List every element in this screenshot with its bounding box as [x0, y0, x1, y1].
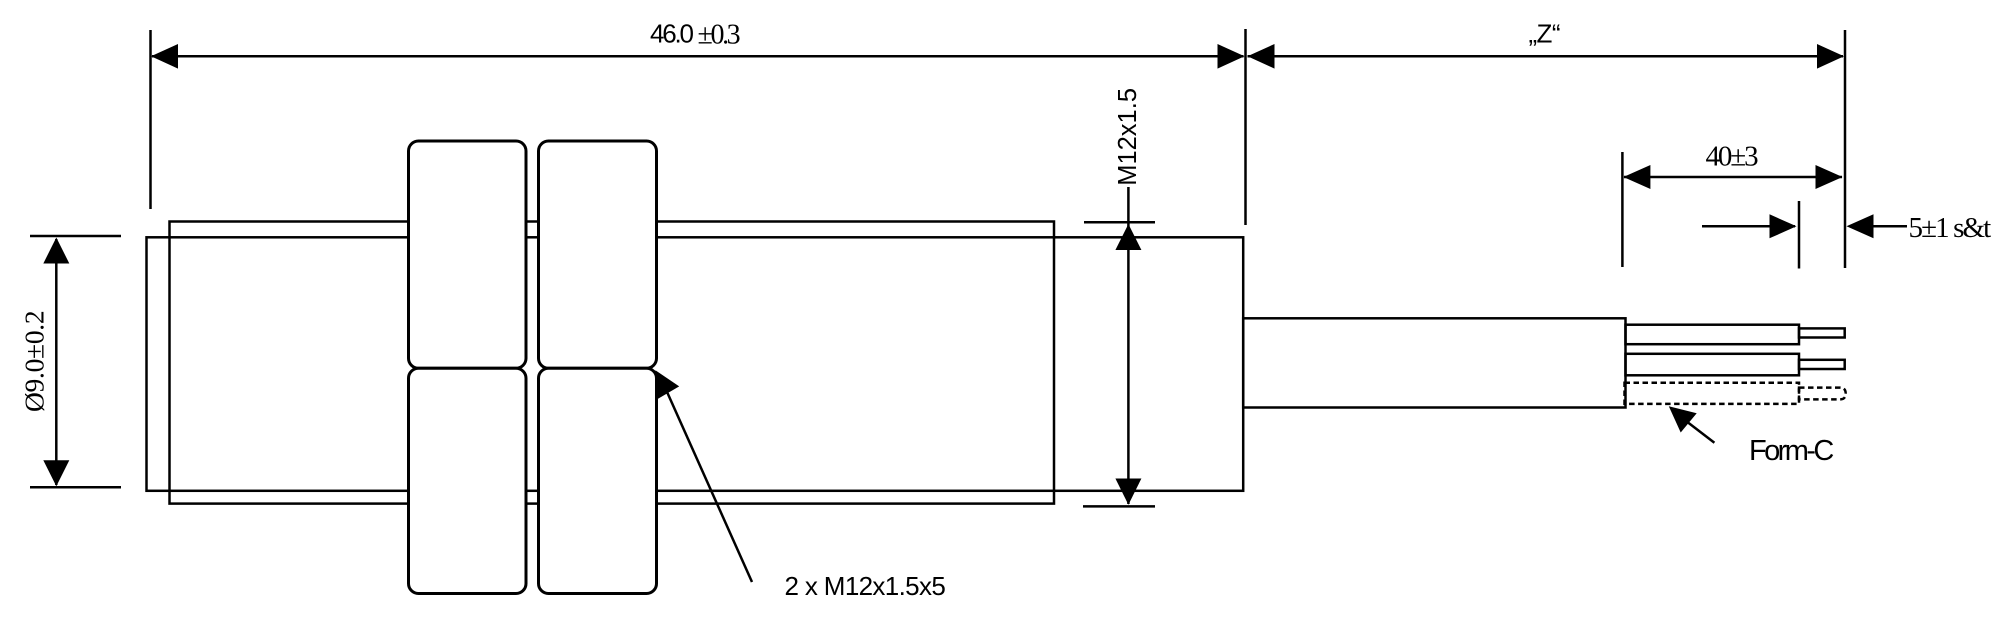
arrowhead Z left	[1248, 44, 1275, 69]
nut 2 upper half	[539, 141, 657, 368]
cable	[1243, 318, 1625, 407]
svg-text:±0.3: ±0.3	[698, 20, 740, 51]
leader line Form-C	[1688, 423, 1714, 443]
dim 46.0 line	[152, 55, 1244, 58]
nut 1 lower half	[409, 368, 527, 593]
wire 3 dashed insulation (Form-C)	[1625, 383, 1800, 404]
dim D9 top tick	[30, 235, 121, 238]
arrowhead M12 up	[1115, 224, 1141, 250]
dim D9 vertical line	[55, 239, 58, 485]
dim 5 annotation stem	[1874, 225, 1908, 228]
arrowhead 46.0 left	[151, 44, 178, 69]
dim 5 line	[1702, 225, 1795, 228]
wire 2 insulation	[1626, 354, 1800, 376]
arrowhead D9 up	[43, 238, 69, 264]
svg-text:„Z“: „Z“	[1529, 18, 1560, 48]
arrowhead 40 left	[1623, 165, 1650, 189]
dim D9 bottom tick	[30, 486, 121, 489]
arrowhead 5 annotation left	[1847, 214, 1874, 238]
arrowhead D9 down	[43, 460, 69, 486]
wire 3 dashed bare end	[1799, 388, 1846, 400]
arrowhead M12 down	[1115, 479, 1141, 505]
arrowhead 40 right	[1816, 165, 1843, 189]
svg-text:Ø9.0±0.2: Ø9.0±0.2	[19, 311, 50, 412]
arrowhead 5 right	[1770, 214, 1797, 238]
nut 2 lower half	[539, 368, 657, 593]
dim M12 bottom tick	[1083, 505, 1155, 508]
svg-text:46.0: 46.0	[650, 19, 694, 49]
body core cylinder	[147, 237, 1244, 490]
svg-text:40±3: 40±3	[1706, 141, 1759, 173]
dim Z right extension line	[1844, 30, 1847, 268]
dim 5 extension line	[1798, 201, 1801, 269]
svg-text:M12x1.5: M12x1.5	[1114, 88, 1142, 186]
dim Z line	[1248, 55, 1844, 58]
wire 1 bare conductor	[1799, 328, 1845, 337]
leader line nuts	[668, 393, 753, 582]
dim 40 line	[1624, 176, 1842, 179]
dim M12 top tick	[1084, 221, 1155, 224]
dim 46.0 / Z shared extension line	[1244, 29, 1247, 225]
svg-text:5±1 s&t: 5±1 s&t	[1909, 212, 1992, 244]
wire 1 insulation	[1626, 325, 1800, 345]
arrowhead Form-C leader	[1669, 406, 1697, 432]
thread section M12	[170, 222, 1055, 504]
dim 46.0 left extension line	[149, 30, 152, 209]
svg-text:2 x M12x1.5x5: 2 x M12x1.5x5	[785, 571, 946, 601]
arrowhead 46.0 right	[1218, 44, 1245, 69]
dim 40 left extension line	[1621, 152, 1624, 267]
arrowhead nut leader	[655, 370, 679, 399]
dim M12 vertical line	[1127, 187, 1130, 504]
nut 1 upper half	[409, 141, 527, 368]
svg-text:Form-C: Form-C	[1749, 435, 1833, 467]
wire 2 bare conductor	[1799, 360, 1845, 369]
arrowhead Z right	[1817, 44, 1844, 69]
